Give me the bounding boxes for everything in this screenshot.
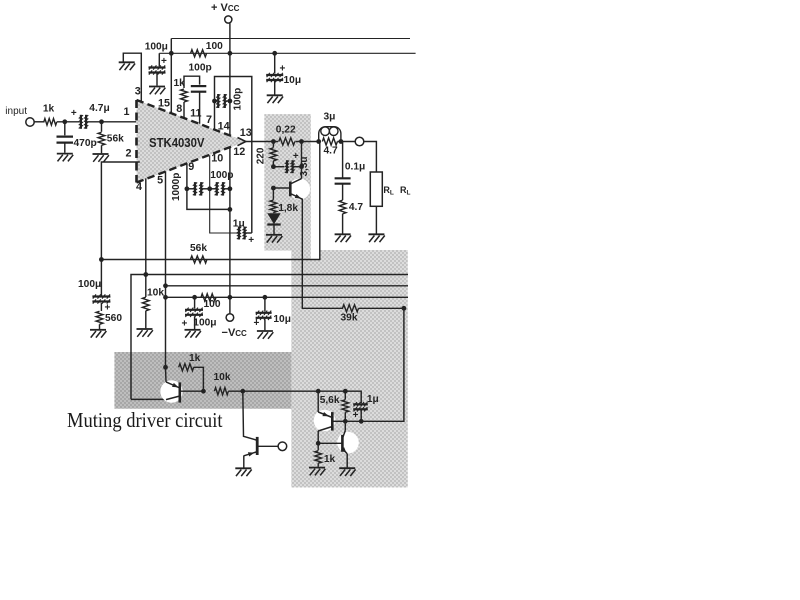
plus sign (3,3u) (293, 151, 299, 162)
svg-text:1k: 1k (324, 454, 336, 465)
capacitor 100μ (bottom-left) (92, 294, 110, 303)
label 1k (pin 8) (174, 78, 186, 89)
pin number 7 (206, 114, 212, 126)
plus sign (10μ bottom) (254, 318, 260, 329)
label RL (383, 185, 394, 197)
capacitor 100p (pins 8-11) (191, 86, 207, 124)
capacitor 10μ (top) with wires (266, 53, 283, 94)
svg-text:10μ: 10μ (284, 75, 302, 86)
-Vcc terminal (226, 314, 234, 322)
ground (100μ top-left) (149, 87, 165, 95)
svg-text:4.7: 4.7 (324, 146, 338, 157)
wire 10k line to right (228, 389, 347, 394)
svg-text:−VCC: −VCC (222, 327, 248, 339)
label 4.7 (zobel) (349, 202, 363, 213)
label 10k (pin 4) (147, 288, 164, 299)
svg-text:input: input (5, 106, 27, 117)
label STK4030V (149, 136, 205, 150)
svg-text:+: + (71, 108, 77, 119)
op-amp STK4030V apex chevron (238, 138, 246, 146)
wire muting collector line (131, 398, 166, 400)
ground (pin 3) (119, 62, 135, 70)
svg-text:1000p: 1000p (171, 173, 182, 201)
svg-text:+: + (280, 64, 286, 75)
pin number 1 (124, 106, 130, 118)
label 100 (negative rail) (204, 299, 221, 310)
svg-text:3μ: 3μ (324, 112, 336, 123)
wire output line to coil (295, 139, 321, 144)
svg-text:3: 3 (135, 85, 141, 97)
ground (RL) (368, 234, 384, 242)
resistor 5,6k (342, 391, 349, 423)
svg-text:+: + (353, 410, 359, 421)
label 100μ (top-left cap) (145, 42, 168, 53)
ground (100μ mid-bottom) (185, 330, 201, 338)
svg-text:10: 10 (211, 153, 223, 165)
svg-text:+: + (182, 319, 188, 330)
label 100 (rail resistor) (206, 41, 223, 52)
wire pin 10 down to 1μ line (210, 155, 237, 233)
resistor 1,8k (270, 188, 277, 213)
svg-text:8: 8 (176, 103, 182, 115)
capacitor 100p (pins 10-12) (207, 182, 233, 196)
label 10k (muting) (214, 372, 231, 383)
+Vcc label (211, 2, 240, 14)
transistor Q2 (mute control) (243, 391, 278, 467)
pin number 4 (136, 181, 142, 193)
resistor 39k (343, 305, 359, 312)
svg-text:5,6k: 5,6k (320, 395, 340, 406)
svg-text:+: + (248, 235, 254, 246)
svg-text:14: 14 (218, 120, 230, 132)
capacitor 100μ (mid-bottom) (185, 297, 203, 329)
resistor 56k (feedback) (190, 256, 207, 263)
ground (56k input) (93, 154, 109, 162)
resistor 1k (pin 8) with top bracket (181, 76, 200, 118)
capacitor 470p to ground (57, 122, 74, 153)
wire input to 1k (34, 121, 44, 123)
svg-text:560: 560 (105, 313, 122, 324)
wire output terminal to RL (364, 142, 377, 173)
svg-text:1μ: 1μ (367, 394, 379, 405)
resistor 560 to ground (96, 303, 103, 329)
wire pin 9 down with bottom bracket (185, 163, 230, 209)
svg-text:15: 15 (158, 98, 170, 110)
svg-text:0,22: 0,22 (276, 125, 296, 136)
wire 1k to 4.7μ (57, 119, 80, 124)
svg-text:100μ: 100μ (193, 318, 216, 329)
svg-text:39k: 39k (341, 313, 358, 324)
label 0,22 (276, 125, 296, 136)
svg-text:100: 100 (206, 41, 223, 52)
label 4.7μ (89, 103, 109, 114)
capacitor 3,3u (273, 160, 304, 173)
plus sign (100μ mid-bottom) (182, 319, 188, 330)
svg-text:10μ: 10μ (273, 314, 291, 325)
label 3,3u (vertical) (299, 156, 310, 176)
capacitor 1μ (pin 10) (236, 227, 252, 240)
svg-text:100p: 100p (189, 63, 212, 74)
label 3μ (324, 112, 336, 123)
+Vcc terminal (225, 16, 232, 23)
wire line y=297.3 (166, 295, 409, 300)
svg-text:2: 2 (126, 147, 132, 159)
label 220 (vertical) (256, 147, 267, 164)
ground (zobel) (335, 234, 351, 242)
transistor Q3 (muting pair upper) (314, 391, 346, 445)
svg-text:10k: 10k (147, 288, 164, 299)
wire 39k to down-riser (359, 306, 407, 311)
mute control terminal (278, 442, 287, 451)
resistor 100 (rail) (191, 50, 207, 57)
wire output line from apex (246, 139, 278, 144)
svg-text:4.7: 4.7 (349, 202, 363, 213)
svg-text:STK4030V: STK4030V (149, 136, 205, 150)
svg-text:+ VCC: + VCC (211, 2, 240, 14)
label 1μ (pin 10) (233, 219, 245, 230)
resistor 0,22 (279, 138, 295, 145)
output terminal (355, 137, 364, 146)
svg-text:4.7μ: 4.7μ (89, 103, 109, 114)
ground (560) (90, 330, 106, 338)
ground (10μ top) (267, 95, 283, 103)
transistor Q-mute-output (271, 178, 310, 199)
pin number 8 (176, 103, 182, 115)
plus sign (1μ muting) (353, 410, 359, 421)
transistor Q-muting (driver, left) (160, 365, 206, 403)
label 470p (74, 138, 97, 149)
label 100p (pins 8-11) (189, 63, 212, 74)
capacitor 100μ top-left with wires (149, 53, 166, 85)
pin number 10 (211, 153, 223, 165)
resistor 220 (270, 142, 277, 170)
wire emitter down to 39k line (302, 199, 343, 309)
label 56k (input) (107, 133, 124, 144)
resistor 56k (input) to ground (98, 122, 105, 154)
plus sign (1μ pin 10) (248, 235, 254, 246)
pin number 15 (158, 98, 170, 110)
wire top rail 1 (y=38.5) (171, 38, 410, 40)
wire 4.7μ to pin 1 (87, 119, 136, 124)
svg-text:4: 4 (136, 181, 142, 193)
label 1k (muting) (189, 353, 201, 364)
svg-text:220: 220 (256, 147, 267, 164)
label 56k (feedback) (190, 243, 207, 254)
plus sign (100μ top-left) (161, 56, 167, 67)
label 1μ (muting) (367, 394, 379, 405)
svg-text:5: 5 (157, 175, 163, 187)
label 5,6k (320, 395, 340, 406)
resistor 4.7 (zobel) (339, 200, 346, 233)
ground (10μ bottom) (257, 331, 273, 339)
pin number 11 (190, 108, 201, 120)
input terminal (26, 118, 34, 126)
pin number 3 (135, 85, 141, 97)
capacitor 4.7μ series (79, 115, 89, 129)
svg-text:100μ: 100μ (145, 42, 168, 53)
capacitor 1000p (pin 9) (187, 182, 207, 196)
ground (10k) (137, 329, 153, 337)
resistor 1k (muting pair) (315, 443, 322, 467)
wire feedback node down to 100μ (bottom-left) (100, 260, 102, 296)
wire line y=274.5 with left drop to muting transistor (131, 275, 408, 400)
shaded region: right-hand block (291, 250, 407, 488)
wire pin 4 down to line y=274.5 (143, 178, 148, 277)
capacitor 10μ (bottom) to ground (256, 297, 272, 330)
pin number 5 (157, 175, 163, 187)
label input (5, 106, 27, 117)
svg-text:1k: 1k (189, 353, 201, 364)
label 560 (105, 313, 122, 324)
resistor RL (load box) (370, 172, 382, 234)
wire -Vcc riser (pin 12 branch) (228, 207, 233, 314)
resistor 1k (muting) (179, 364, 204, 392)
label 1k (input) (43, 104, 55, 115)
svg-text:56k: 56k (190, 243, 207, 254)
ground (Q4) (339, 468, 355, 476)
op-amp STK4030V outline left edge (135, 100, 138, 183)
label 10μ (bottom) (273, 314, 291, 325)
pin number 2 (126, 147, 132, 159)
svg-text:1,8k: 1,8k (278, 203, 298, 214)
label RL (ghost) (400, 185, 411, 197)
resistor 10k (pin 4) to ground (142, 275, 149, 329)
inductor 3μ (319, 127, 341, 142)
wire pin 3 bracket to ground (123, 53, 141, 101)
ground (Q2) (235, 468, 251, 476)
label 4.7 (coil damper) (324, 146, 338, 157)
plus sign (4.7μ) (71, 108, 77, 119)
resistor 4.7 (coil damper) (322, 138, 355, 145)
svg-text:+: + (161, 56, 167, 67)
transistor Q4 (muting pair lower) (318, 421, 359, 467)
svg-text:100p: 100p (233, 88, 244, 111)
svg-text:0.1μ: 0.1μ (345, 162, 365, 173)
svg-text:+: + (293, 151, 299, 162)
shaded region: muting driver band (114, 352, 291, 409)
svg-text:1k: 1k (43, 104, 55, 115)
label 100μ (mid-bottom) (193, 318, 216, 329)
capacitor 100p (pin 7) horizontal (212, 94, 230, 108)
pin number 14 (218, 120, 230, 132)
shaded region: amplifier triangle body fill (137, 100, 247, 183)
capacitor 0.1μ (zobel) (335, 142, 351, 201)
wire rail1 left corner down to rail2 (169, 39, 174, 56)
label 1,8k (278, 203, 298, 214)
-Vcc label (222, 327, 248, 339)
svg-text:56k: 56k (107, 133, 124, 144)
wire line y=285.8 (166, 285, 409, 287)
label Muting driver circuit (67, 408, 223, 432)
wire top rail 2 (y=53.3) (159, 51, 415, 56)
svg-text:470p: 470p (74, 138, 97, 149)
svg-text:13: 13 (240, 127, 252, 139)
pin number 13 (240, 127, 252, 139)
svg-text:3,3u: 3,3u (299, 156, 310, 176)
diode (output stage) (267, 213, 280, 234)
plus sign (100μ bottom-left) (105, 303, 111, 314)
wire pin 7 bracket up and over to x=251.8 (215, 77, 252, 234)
svg-text:9: 9 (188, 161, 194, 173)
svg-text:100μ: 100μ (78, 279, 101, 290)
svg-text:+: + (105, 303, 111, 314)
shaded region: output-stage strip (264, 114, 311, 250)
label 100p (pin 7, vertical) (233, 88, 244, 111)
resistor 10k (muting) (214, 388, 228, 395)
wire pin 5 down to muting node (163, 171, 168, 367)
resistor 1k (input) (44, 119, 57, 126)
resistor 100 (negative rail) (201, 294, 216, 301)
svg-text:Muting driver circuit: Muting driver circuit (67, 408, 223, 432)
label 10μ (top) (284, 75, 302, 86)
ground (Q3 1k) (309, 468, 325, 476)
label 1k (muting pair) (324, 454, 336, 465)
wire collector riser (3,3u to output line) (301, 142, 303, 180)
wire pin 15 up to rail (170, 53, 172, 113)
wire pin 12 down (229, 147, 231, 209)
label 100p (pin 10 area) (210, 170, 233, 181)
plus sign (10μ top) (280, 64, 286, 75)
label 0.1μ (345, 162, 365, 173)
wire pin 2 left and down to feedback node (99, 162, 140, 262)
label 39k (341, 313, 358, 324)
wire +Vcc terminal down to pin 14 (crosses rail 1, junctions at rails) (228, 23, 233, 135)
ground (diode) (266, 235, 282, 243)
wire 56k feedback line (y=259.5) with riser to output node (101, 142, 319, 260)
svg-text:10k: 10k (214, 372, 231, 383)
svg-text:+: + (254, 318, 260, 329)
ground (470p) (57, 154, 73, 162)
svg-text:11: 11 (190, 108, 201, 120)
label 100μ (bottom-left) (78, 279, 101, 290)
svg-text:7: 7 (206, 114, 212, 126)
capacitor 1μ (muting) (345, 391, 368, 423)
op-amp STK4030V outline bottom edge (137, 145, 235, 182)
label 1000p (vertical) (171, 173, 182, 201)
svg-text:1: 1 (124, 106, 130, 118)
wire riser down to 1μ line (345, 308, 404, 421)
svg-text:100: 100 (204, 299, 221, 310)
svg-text:12: 12 (233, 146, 245, 158)
op-amp STK4030V outline top edge (137, 100, 235, 137)
pin number 12 (233, 146, 245, 158)
pin number 9 (188, 161, 194, 173)
